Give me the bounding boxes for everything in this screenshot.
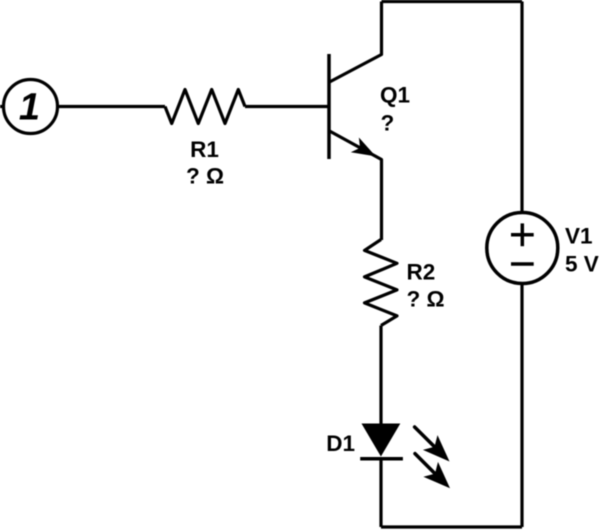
- svg-text:Q1: Q1: [380, 82, 410, 107]
- svg-text:D1: D1: [326, 431, 355, 456]
- svg-text:V1: V1: [565, 223, 593, 248]
- svg-text:? Ω: ? Ω: [407, 287, 445, 312]
- svg-text:?: ?: [381, 111, 395, 136]
- svg-text:1: 1: [19, 87, 40, 129]
- svg-text:R1: R1: [190, 137, 219, 162]
- svg-text:R2: R2: [407, 260, 436, 285]
- svg-text:? Ω: ? Ω: [186, 163, 224, 188]
- svg-text:5 V: 5 V: [565, 252, 599, 277]
